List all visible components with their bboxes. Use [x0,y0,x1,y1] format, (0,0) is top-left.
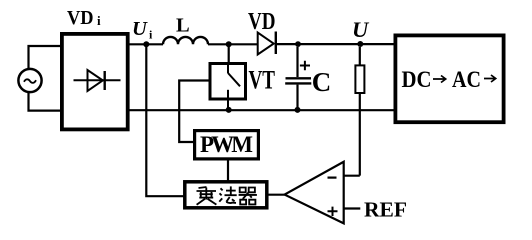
label VDi [67,7,101,29]
resistor divider [355,47,364,176]
node Ui [143,41,149,47]
transistor VT (switch) [210,47,246,110]
label Ui [132,18,153,41]
wire top rail (diode to DC-AC box) [277,43,394,45]
node VT drain junction [226,41,232,47]
wire Ui sense to multiplier [146,47,184,196]
wire source top to rectifier [29,46,61,68]
capacitor C [285,47,311,108]
svg-text:C: C [312,67,332,97]
wire REF to non-inverting input [344,207,361,209]
wire bottom rail [129,109,394,111]
svg-text:i: i [97,13,101,28]
node VT source junction [226,107,232,113]
wire PWM to multiplier [227,161,229,182]
svg-text:U: U [132,18,148,40]
label multiplier (cheng fa qi) [197,186,257,204]
multiplier box [185,182,267,208]
wire top rail left (rectifier to inductor) [129,43,163,45]
svg-text:DC: DC [402,67,432,92]
inductor L [163,37,208,44]
wire source bottom to rectifier [29,93,61,111]
wire resistor to inverting input [344,175,360,177]
svg-text:VT: VT [249,66,276,95]
svg-text:REF: REF [364,197,407,221]
svg-text:VD: VD [248,9,276,35]
op-amp comparator [285,162,344,224]
inverter DC-AC block [395,35,503,122]
svg-text:U: U [352,17,370,42]
node capacitor top [295,41,301,47]
rectifier bridge VDi [62,34,128,129]
label DC to AC [402,67,482,92]
svg-text:L: L [176,15,190,37]
PWM controller box [195,131,259,159]
diode VD [258,32,276,55]
node U [357,41,363,47]
ac source [18,69,41,92]
wire VT gate to PWM [179,81,208,143]
svg-text:AC: AC [452,67,481,92]
svg-text:PWM: PWM [200,132,253,157]
node capacitor bottom junction [295,107,301,113]
wire top rail (inductor to diode) [208,43,258,45]
wire comparator output to multiplier [267,194,285,196]
svg-text:VD: VD [67,7,94,29]
